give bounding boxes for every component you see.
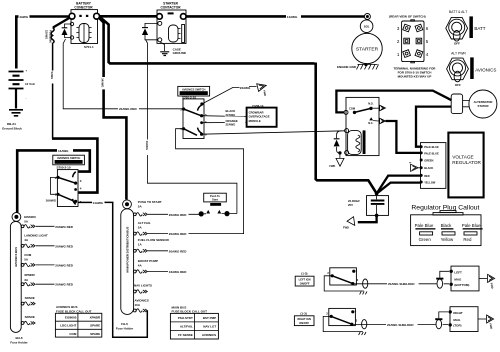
fuse push-to-start 5A [133, 200, 161, 216]
wire left ign shield ground loop [324, 276, 367, 295]
fuse spare 2 [21, 315, 35, 325]
svg-text:20AWG RED: 20AWG RED [55, 263, 74, 267]
battery 12 Volt [9, 69, 35, 109]
starter contactor [157, 2, 186, 44]
svg-text:GROUND: GROUND [173, 51, 187, 55]
wire battery contactor coil to avionics switch (20AWG RED) [63, 39, 182, 109]
svg-text:DB-24: DB-24 [7, 122, 16, 126]
svg-text:REGULATOR: REGULATOR [452, 160, 481, 165]
svg-text:AVIONICS BUS: AVIONICS BUS [56, 305, 77, 309]
svg-text:MAG: MAG [453, 318, 461, 322]
pushbutton push to start [199, 193, 237, 216]
voltage regulator [448, 133, 483, 198]
svg-text:Ground Block: Ground Block [2, 127, 22, 131]
svg-text:ON/OFF: ON/OFF [299, 321, 309, 325]
svg-text:BATT: BATT [474, 26, 485, 31]
svg-text:10A: 10A [135, 303, 141, 307]
svg-text:5AWG: 5AWG [50, 72, 54, 80]
svg-text:GREEN: GREEN [424, 158, 433, 162]
svg-text:(BOTTOM): (BOTTOM) [454, 283, 469, 287]
svg-text:Green: Green [419, 237, 432, 242]
svg-text:MAIN POWER DISTRIBUTION BUS: MAIN POWER DISTRIBUTION BUS [126, 227, 130, 273]
svg-text:20AWG RED: 20AWG RED [55, 225, 74, 229]
svg-text:+: + [26, 69, 28, 73]
fuse landing light 4A [21, 234, 74, 249]
main power distribution bus FH-6 fuse holder [116, 209, 134, 331]
battery contactor S701-1 [69, 2, 99, 49]
svg-text:14AWG: 14AWG [93, 201, 104, 205]
svg-text:16AWG RED: 16AWG RED [169, 270, 188, 274]
wire capacitor to regulator yellow [377, 183, 421, 194]
connector faston to left mag case [479, 274, 495, 289]
fuse boost pump 4A [133, 259, 187, 274]
fuse spare 1 [21, 296, 35, 305]
svg-text:MODULE: MODULE [249, 119, 261, 123]
diode across starter contactor coil [142, 23, 158, 39]
svg-text:VOLTAGE: VOLTAGE [452, 154, 473, 159]
wire capacitor negative to ground [358, 215, 377, 222]
svg-text:PALE BLUE: PALE BLUE [424, 151, 439, 155]
toggle switch ALT PWR avionics [447, 51, 497, 87]
svg-text:ALT FAIL: ALT FAIL [138, 221, 151, 225]
starter motor SOL terminal [364, 14, 370, 20]
svg-text:AVIONICS BUS: AVIONICS BUS [14, 247, 18, 267]
svg-text:S700-2-10: S700-2-10 [57, 165, 71, 169]
svg-text:XPNDR: XPNDR [90, 316, 101, 320]
wire push-to-start 20AWG RED [148, 213, 199, 215]
svg-text:RIGHT IGN: RIGHT IGN [297, 317, 311, 321]
wire alternator lead to regulator pale blue 1 [416, 107, 451, 147]
svg-text:LEFT: LEFT [454, 270, 462, 274]
svg-text:(1-3): (1-3) [300, 311, 306, 315]
svg-text:COM: COM [349, 106, 355, 110]
svg-text:ON/OFF: ON/OFF [300, 282, 310, 286]
svg-text:20AWG RED: 20AWG RED [169, 232, 188, 236]
svg-text:MAG: MAG [454, 277, 462, 281]
svg-text:ALT/FAIL: ALT/FAIL [180, 324, 193, 328]
wire capacitor to regulator red [377, 176, 421, 194]
label 16AWG vertical on push-to-start wire [145, 140, 150, 156]
shield termination at left mag [436, 271, 449, 288]
svg-text:AVIONICS: AVIONICS [202, 333, 216, 337]
wire thick to engine area bus [100, 17, 377, 194]
svg-text:NAV LIGHTS: NAV LIGHTS [134, 283, 152, 287]
shield pigtail right ign [362, 320, 367, 329]
svg-text:20AWG SHIELDED: 20AWG SHIELDED [388, 282, 415, 286]
svg-text:FUSELINK: FUSELINK [49, 30, 53, 43]
svg-text:XPNDR: XPNDR [24, 273, 35, 277]
label 14AWG [57, 148, 73, 153]
svg-text:FUEL FLOW SENSOR: FUEL FLOW SENSOR [138, 238, 170, 242]
svg-text:AVIONICS: AVIONICS [475, 67, 496, 72]
connector faston spade to regulator black [408, 161, 420, 171]
node battery contactor T2 feed split [99, 17, 127, 199]
svg-text:COM: COM [69, 332, 77, 336]
svg-text:LEFT IGN: LEFT IGN [299, 277, 311, 281]
label 14AWG RED vertical [100, 77, 106, 89]
left magneto [450, 266, 480, 291]
svg-text:16AWG: 16AWG [145, 141, 149, 150]
svg-text:SPARE: SPARE [90, 332, 100, 336]
svg-text:16AWG: 16AWG [46, 198, 57, 202]
svg-text:FH-6: FH-6 [121, 322, 128, 326]
fuse avionics 10A [133, 298, 148, 312]
wire relay NC to regulator pale blue 2 [385, 121, 420, 153]
svg-text:22AWG: 22AWG [45, 30, 49, 39]
svg-text:ALT PWR: ALT PWR [451, 51, 466, 55]
svg-text:BH-6: BH-6 [15, 336, 22, 340]
table avionics bus fuse block call out [55, 305, 101, 337]
master switch S700-2-10 [55, 165, 82, 206]
wire avionics switch T5 to alt-fail fuse [176, 129, 244, 234]
wire main bus feed 14AWG from master switch T6 [78, 201, 92, 203]
svg-text:20AWG RED: 20AWG RED [119, 107, 138, 111]
svg-text:20AWG RED: 20AWG RED [55, 283, 74, 287]
label 5AWG vertical [50, 71, 55, 84]
fuse fuel flow sensor 1A [133, 238, 187, 253]
svg-text:SPARE: SPARE [25, 296, 35, 300]
svg-text:25V: 25V [348, 203, 353, 207]
svg-text:Pale Blue: Pale Blue [415, 223, 434, 228]
label BLACK 22AWG [225, 109, 245, 117]
wire avionics switch T6 to avionics relay coil [202, 131, 345, 134]
svg-text:22AWG: 22AWG [240, 86, 251, 90]
svg-text:N.C.: N.C. [368, 121, 373, 125]
svg-text:14AWG: 14AWG [101, 78, 105, 87]
label 4AWG on battery feed [19, 14, 30, 19]
svg-text:AVIONICS SWITCH: AVIONICS SWITCH [57, 156, 80, 160]
svg-text:FUSE BLOCK CALL OUT: FUSE BLOCK CALL OUT [56, 309, 92, 313]
wire master switch feed from fusible link [52, 139, 97, 193]
svg-text:OFF: OFF [455, 83, 461, 87]
wire right ign 20AWG shielded [353, 323, 448, 325]
svg-text:BREAKOUT POWER: BREAKOUT POWER [56, 160, 81, 164]
fuse XPNDR 3A [21, 273, 74, 287]
wire fusible link down to master switch feed [52, 43, 54, 139]
master switch label box [53, 155, 85, 165]
svg-text:SPARE: SPARE [90, 324, 100, 328]
svg-text:BOOST PUMP: BOOST PUMP [138, 259, 158, 263]
svg-text:-: - [26, 96, 27, 100]
svg-text:LDG LIGHT: LDG LIGHT [60, 324, 76, 328]
starter solenoid SOL [360, 20, 373, 33]
starter motor [352, 33, 382, 63]
svg-text:14AWG: 14AWG [58, 149, 69, 153]
svg-text:NAV LGT: NAV LGT [203, 324, 216, 328]
fuse EIS6000 5A [21, 215, 74, 229]
svg-text:Yellow: Yellow [441, 237, 454, 242]
svg-text:20AWG RED: 20AWG RED [169, 213, 188, 217]
svg-text:BST PMP: BST PMP [203, 316, 216, 320]
relay coil with diode [334, 129, 366, 155]
svg-text:22AWG: 22AWG [226, 122, 236, 126]
table main bus fuse block call out [170, 306, 218, 339]
avionics relay enclosure [346, 97, 379, 155]
regulator plug callout [411, 205, 483, 246]
svg-text:EIS6000: EIS6000 [24, 215, 36, 219]
ground engine ground [337, 63, 379, 69]
svg-text:Fuse Holder: Fuse Holder [116, 327, 134, 331]
svg-text:PALE BLUE: PALE BLUE [424, 145, 439, 149]
node avionics bus feed ring terminal [12, 213, 21, 222]
label ORANGE 22AWG [225, 118, 246, 126]
label 14AWG on starter feed [286, 14, 301, 19]
svg-text:YELLOW: YELLOW [424, 180, 436, 184]
svg-text:Pale Blue: Pale Blue [462, 223, 481, 228]
fuse nav lights [133, 283, 152, 293]
svg-text:PUSH TO START: PUSH TO START [138, 200, 162, 204]
svg-text:STARTER: STARTER [356, 46, 379, 52]
svg-text:Black: Black [441, 223, 453, 228]
svg-text:BLACK: BLACK [424, 166, 433, 170]
wire orange 22AWG avionics switch T4 to OVM [202, 121, 247, 123]
svg-text:AVIONICS: AVIONICS [135, 298, 149, 302]
wire 22AWG from avionics switch to field spade [202, 86, 257, 104]
svg-text:Fuse Holder: Fuse Holder [10, 340, 28, 344]
svg-text:Red: Red [463, 237, 472, 242]
ground case ground of starter contactor [160, 42, 187, 56]
svg-text:FWD: FWD [329, 164, 335, 168]
avionics bus BH-6 fuse holder [10, 221, 28, 344]
svg-text:20AWG SHIELDED: 20AWG SHIELDED [387, 323, 414, 327]
svg-text:FF SENSE: FF SENSE [178, 333, 193, 337]
svg-text:RIGHT: RIGHT [453, 311, 463, 315]
wire black 22AWG avionics switch T3 to OVM [202, 115, 247, 118]
wire avionics fuse loop around fuse holder [105, 202, 148, 337]
svg-text:OFF: OFF [454, 42, 460, 46]
svg-text:CONTACTOR: CONTACTOR [160, 5, 181, 9]
svg-text:4AWG: 4AWG [19, 15, 29, 19]
relay contact COM NO NC [344, 102, 385, 125]
svg-text:S701-1: S701-1 [84, 45, 94, 49]
svg-text:MOUNTED KEYWAY UP: MOUNTED KEYWAY UP [398, 74, 432, 78]
svg-text:Push To: Push To [210, 194, 220, 198]
crowbar overvoltage module OVM-14 [247, 104, 277, 127]
svg-text:N.O.: N.O. [368, 102, 374, 106]
voltage regulator plug [420, 143, 446, 189]
svg-text:(1-3): (1-3) [301, 272, 307, 276]
capacitor 22000uF 25V [348, 192, 389, 217]
toggle switch BATT and ALT [446, 10, 486, 46]
wire bold feed to relay COM [336, 91, 451, 113]
label 20AWG RED [118, 106, 139, 111]
svg-text:CONECTOR: CONECTOR [74, 5, 93, 9]
wire left ign 20AWG shielded [354, 283, 449, 285]
ground FWD relay coil [329, 154, 344, 168]
svg-text:SOL: SOL [364, 24, 370, 28]
shield pigtail left ign [363, 279, 368, 288]
svg-text:14AWG: 14AWG [287, 15, 298, 19]
fusible link 22AWG from battery contactor T1 [45, 18, 71, 44]
avionics switch S700-2-10 [180, 96, 207, 139]
svg-text:(TOP): (TOP) [453, 323, 461, 327]
svg-text:(REAR VIEW OF SWITCH): (REAR VIEW OF SWITCH) [389, 15, 426, 19]
fuse COM 5A [21, 253, 74, 268]
connector faston spade field [257, 82, 268, 92]
svg-text:Start: Start [212, 198, 218, 202]
svg-text:AVIONICS SWITCH: AVIONICS SWITCH [182, 87, 205, 91]
wire main power bus 4AWG top [15, 16, 365, 68]
wire jumper loop terminals 2-5 of master switch [51, 177, 59, 194]
svg-text:22AWG: 22AWG [226, 113, 236, 117]
connector faston to right mag case [478, 315, 494, 330]
wire avionics bus feed 14AWG from master switch [17, 150, 90, 212]
svg-text:LANDING LIGHT: LANDING LIGHT [24, 234, 48, 238]
svg-text:20AWG RED: 20AWG RED [55, 244, 74, 248]
wire push-to-start 16AWG from contactor coil down [146, 40, 237, 214]
shield termination at right mag [435, 312, 448, 329]
svg-text:RED: RED [424, 174, 430, 178]
switch right ignition on/off [294, 308, 357, 325]
diode across battery contactor coil [62, 24, 71, 38]
svg-text:EIS6000: EIS6000 [65, 316, 77, 320]
switch left ignition on/off [295, 268, 359, 286]
switch rear view diagram [389, 15, 436, 79]
connector alternator plug [451, 94, 469, 114]
svg-text:BATT & ALT: BATT & ALT [449, 10, 467, 14]
ground FWD capacitor [343, 217, 358, 230]
avionics switch label box [178, 86, 210, 96]
svg-text:SPARE: SPARE [25, 315, 35, 319]
node main bus feed ring terminal [123, 200, 132, 209]
svg-text:STATOR: STATOR [477, 104, 488, 108]
fuse alt fail 5A [133, 221, 187, 236]
svg-text:12 Volt: 12 Volt [25, 82, 35, 86]
svg-text:PSH-STRT: PSH-STRT [178, 316, 193, 320]
ground DB-24 ground block [2, 110, 23, 131]
svg-text:COM: COM [24, 253, 32, 257]
wire right ign shield ground loop [323, 316, 366, 335]
right magneto [449, 307, 479, 332]
svg-text:ENGINE GND: ENGINE GND [337, 65, 357, 69]
svg-text:20AWG RED: 20AWG RED [169, 249, 188, 253]
svg-text:FWD: FWD [343, 225, 349, 229]
alternator stator [469, 90, 497, 118]
